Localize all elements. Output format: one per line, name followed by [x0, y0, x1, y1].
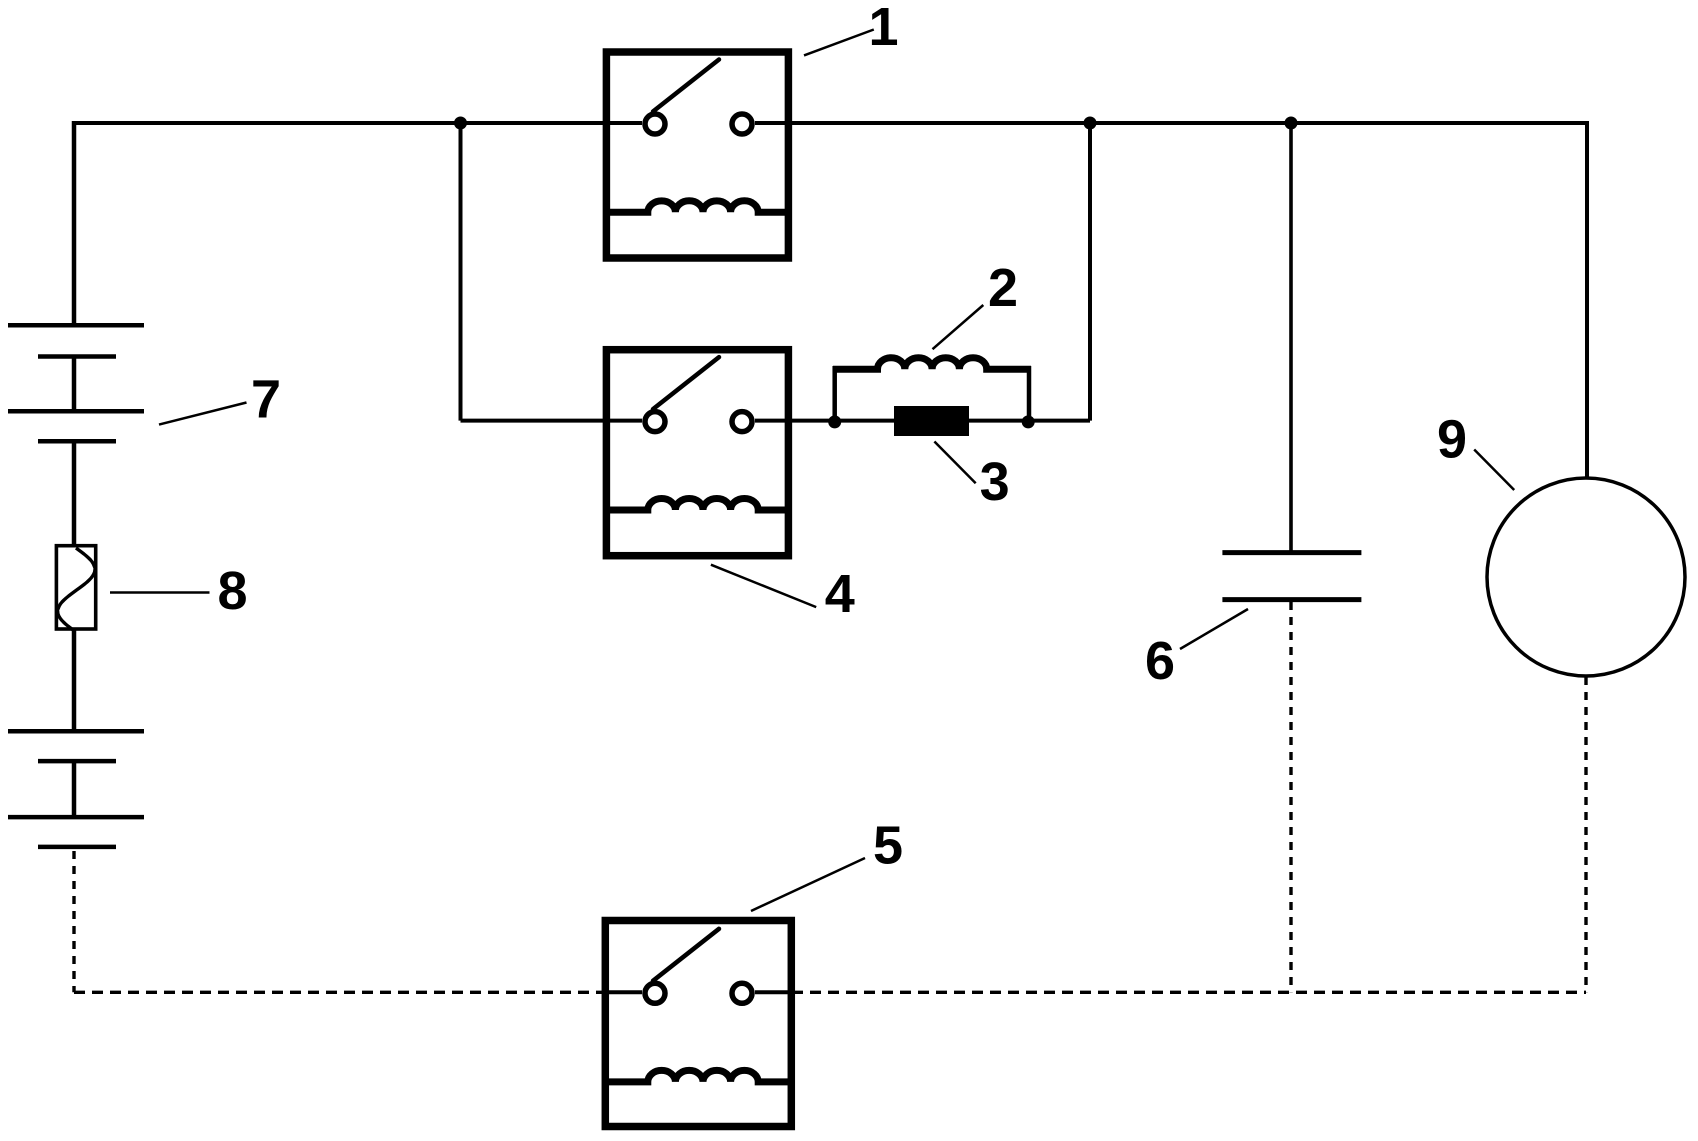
relay 5 contact circles — [645, 983, 665, 1003]
wire top bus left segment (battery + to relay 1 left contact) — [74, 121, 642, 125]
relay 1 contact leads — [606, 121, 642, 125]
wire riser up to top bus — [1088, 123, 1092, 421]
relay 4 — [604, 350, 791, 556]
relay 4 coil — [604, 499, 791, 510]
wire dashed battery - to bottom bus — [72, 851, 75, 992]
relay 5 switch arm — [653, 929, 719, 981]
wire dashed bottom bus right segment — [792, 991, 1586, 994]
relay 5 — [603, 921, 793, 1127]
svg-text:4: 4 — [825, 564, 855, 624]
sensor 8 (current sensor box with sine curve) — [56, 546, 95, 630]
relay 5 contact leads — [605, 990, 642, 994]
relay 1 contact circles — [645, 114, 665, 134]
capacitor 6 dashed bottom lead — [1289, 602, 1292, 992]
svg-text:8: 8 — [217, 561, 247, 621]
wire sensor 8 to battery lower stack — [72, 629, 77, 731]
inductor 2 right riser — [1027, 366, 1032, 422]
relay 5 coil — [603, 1070, 793, 1082]
capacitor 6 top lead — [1289, 123, 1293, 551]
relay 4 right contact lead — [755, 419, 789, 423]
battery 7 lower stack — [8, 731, 144, 847]
wire battery 7 to sensor 8 — [72, 441, 77, 547]
inductor 2 winding — [833, 358, 1031, 369]
wire left column from top bus down to battery 7 — [72, 121, 77, 325]
node D (parallel group right) — [1022, 415, 1035, 428]
label 3 leader — [934, 442, 975, 484]
motor 9 top lead — [1585, 121, 1589, 478]
relay 1 — [604, 52, 791, 258]
motor 9 body circle — [1487, 478, 1685, 676]
wire node A down — [459, 123, 463, 421]
relay 5 box — [605, 921, 791, 1127]
relay 1 switch arm — [653, 60, 719, 112]
relay 1 box — [606, 52, 788, 258]
label 8 leader — [110, 591, 210, 594]
relay 4 switch arm — [653, 357, 719, 409]
node A (top bus / relay 4 branch) — [454, 117, 467, 130]
svg-text:6: 6 — [1145, 631, 1175, 691]
wire to relay 4 left contact — [461, 419, 643, 423]
svg-text:9: 9 — [1437, 409, 1467, 469]
svg-text:7: 7 — [251, 370, 281, 430]
motor 9 dashed bottom lead — [1584, 677, 1587, 992]
wire relay 4 output through resistor to riser — [788, 419, 1090, 423]
capacitor 6 — [1222, 123, 1361, 992]
relay 1 coil — [604, 201, 791, 212]
node B (top bus / riser) — [1084, 117, 1097, 130]
motor 9 — [1487, 121, 1685, 992]
svg-text:3: 3 — [980, 452, 1010, 512]
label 4 leader — [711, 565, 816, 607]
wire top bus right segment (relay 1 right contact to motor branch corner) — [755, 121, 1587, 125]
node C (parallel group left) — [828, 415, 841, 428]
svg-text:1: 1 — [868, 0, 898, 57]
svg-text:2: 2 — [988, 258, 1018, 318]
battery 7 upper stack — [8, 325, 144, 441]
label 9 leader — [1474, 450, 1514, 491]
node E (top bus / capacitor branch) — [1285, 117, 1298, 130]
capacitor 6 plates — [1222, 550, 1361, 555]
relay 4 box — [606, 350, 788, 556]
label 6 leader — [1180, 609, 1248, 649]
label 2 leader — [933, 305, 984, 349]
label 5 leader — [751, 858, 865, 911]
svg-text:5: 5 — [873, 816, 903, 876]
inductor 2 branch — [833, 358, 1031, 422]
wire dashed bottom bus left segment — [74, 991, 605, 994]
inductor 2 left riser — [832, 366, 837, 422]
label 7 leader — [159, 403, 247, 425]
resistor 3 — [894, 406, 969, 436]
label 1 leader — [804, 30, 874, 56]
relay 4 contact circles — [645, 412, 665, 432]
